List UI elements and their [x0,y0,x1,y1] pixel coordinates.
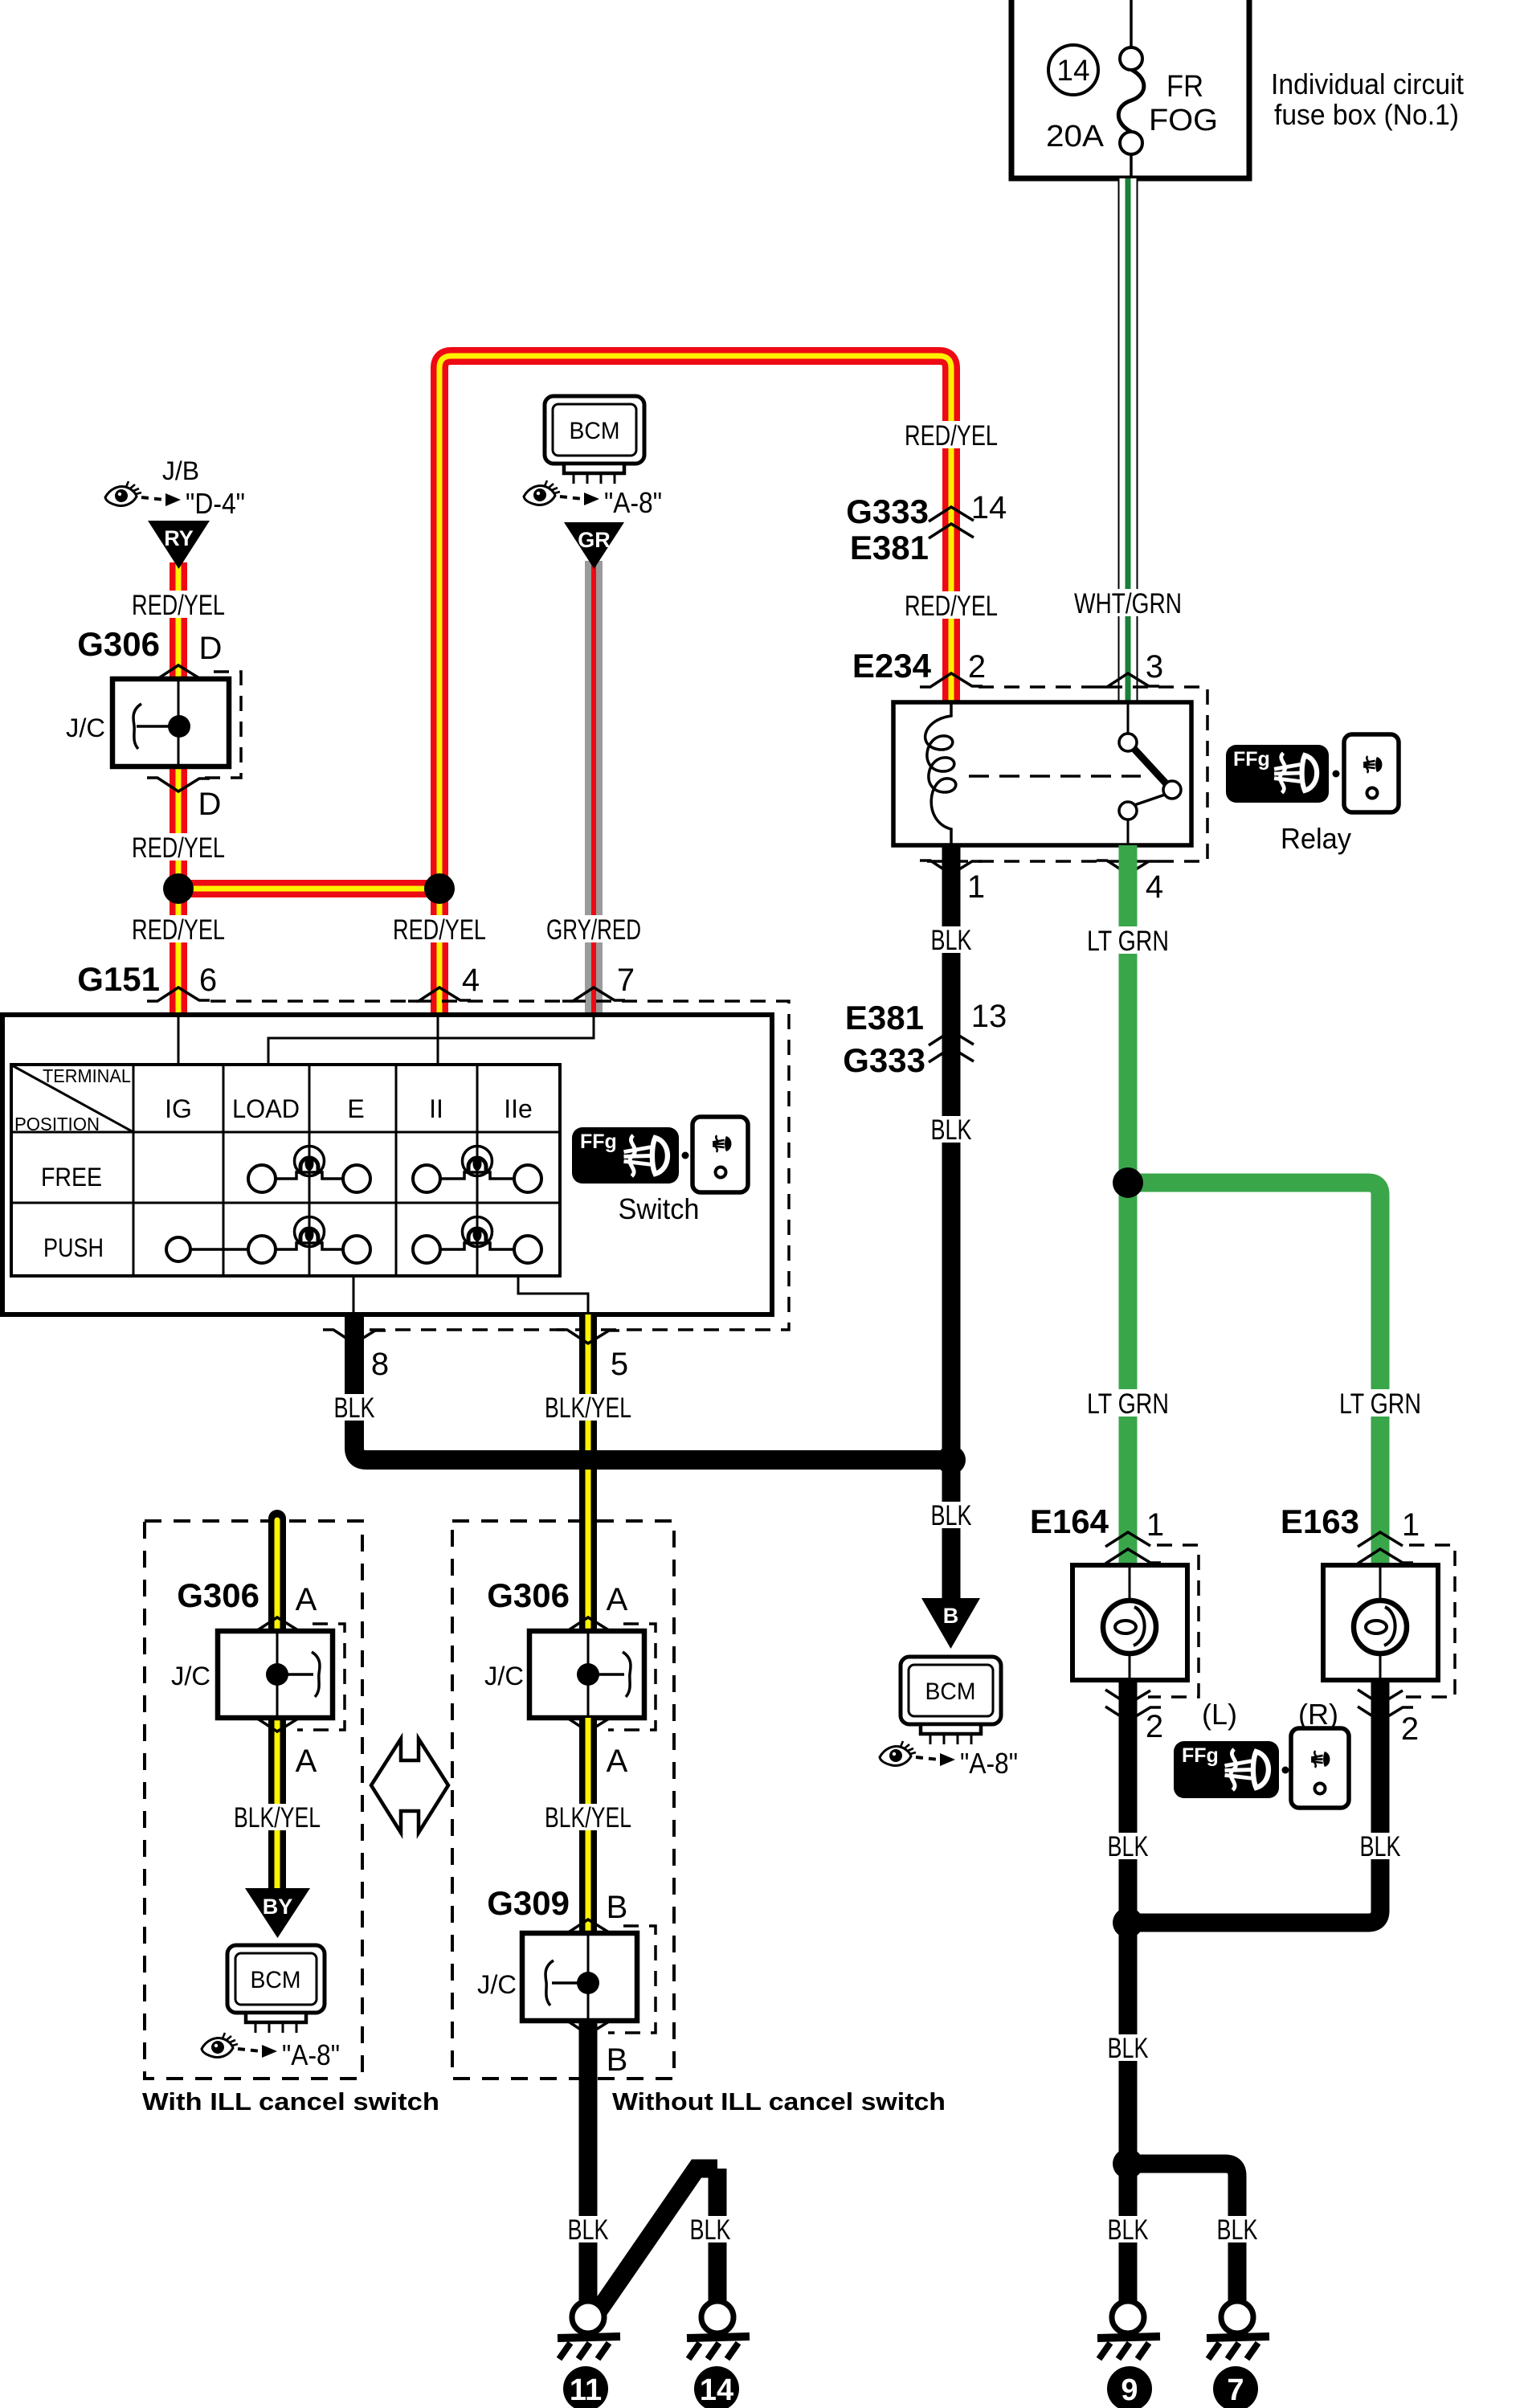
svg-text:B: B [943,1604,959,1628]
wire (internal) terminal 7 to LOAD column [268,1017,594,1065]
svg-text:14: 14 [1056,54,1089,87]
ground id 14 [694,2366,739,2408]
BCM module (top) [545,396,644,484]
svg-text:(L): (L) [1202,1698,1237,1731]
dashed arrow to "A-8" (bottom) [238,2045,277,2058]
svg-text:J/C: J/C [66,713,105,742]
svg-text:G333: G333 [843,1041,925,1079]
wire BLK/YEL G306 to G309 (right branch) [579,1718,597,1933]
svg-text:RED/YEL: RED/YEL [132,832,225,864]
indicator dot (relay) [1333,771,1340,778]
wire BLK branch to ground 7 [1128,2164,1237,2303]
svg-text:8: 8 [371,1347,389,1382]
svg-text:RED/YEL: RED/YEL [905,420,998,452]
svg-text:E381: E381 [850,529,929,566]
junction connector G306 J/C box (left branch) [218,1631,333,1718]
svg-text:B: B [607,1890,628,1925]
label RED/YEL (above G151 terminal 4) [390,914,489,946]
lamp button icon [1291,1728,1349,1808]
svg-text:9: 9 [1121,2373,1138,2407]
wire WHT/GRN from fuse box to relay terminal 3 [1118,178,1138,702]
junction node (BLK lamps) [1113,1907,1143,1938]
svg-text:With ILL cancel switch: With ILL cancel switch [142,2087,439,2116]
eye symbol (view to A-8, top BCM) [524,480,560,505]
switch contacts PUSH row II-IIe [413,1217,541,1264]
connector B triangle (to BCM A-8) [921,1598,980,1649]
svg-text:FFg: FFg [1233,748,1270,771]
wire BLK G309 to ground 11 [579,2021,598,2303]
wire (internal) terminal 4 to II column [437,1017,439,1065]
switch contacts PUSH row IG-LOAD-E [166,1217,370,1264]
chevron terminal B (into G309 J/C) [557,1919,619,1933]
junction connector G306 J/C box (right branch) [529,1631,644,1718]
svg-text:2: 2 [1401,1711,1419,1747]
svg-text:11: 11 [570,2373,602,2407]
svg-text:2: 2 [968,649,986,685]
wire LT GRN branch to E163 [1128,1183,1380,1565]
svg-text:(R): (R) [1298,1698,1338,1731]
svg-text:BLK: BLK [1108,1831,1149,1862]
in-line chevrons above E163 [1358,1532,1413,1564]
svg-text:7: 7 [617,963,635,998]
label RED/YEL (below G333/E381) [901,591,1001,622]
chevron switch terminal 8 [323,1330,386,1343]
wire BLK below E163 joining left wire [1128,1680,1380,1923]
svg-text:RY: RY [164,526,194,550]
wire RED/YEL branch from RY triangle through G306 J/C to G151 terminal 6 [170,562,187,1018]
chevron E234 terminal 1 [920,861,983,874]
fuse F14 symbol FR FOG 20A [1118,0,1144,178]
svg-text:BLK: BLK [1108,2214,1149,2246]
svg-text:RED/YEL: RED/YEL [132,914,225,946]
svg-text:E234: E234 [852,647,932,685]
junction connector G309 dashed outline [608,1926,656,2033]
wire BLK below E164 to ground 9 [1119,1680,1138,2303]
label BLK (above BCM B arrow) [929,1500,974,1531]
svg-text:14: 14 [700,2373,733,2407]
svg-text:Without ILL cancel switch: Without ILL cancel switch [612,2087,946,2116]
svg-text:IG: IG [165,1094,192,1123]
svg-text:A: A [296,1582,317,1617]
wire (internal) terminal 6 to IG column [178,1017,180,1065]
svg-text:BLK: BLK [1217,2214,1258,2246]
svg-text:E164: E164 [1030,1502,1109,1540]
fuse number 14 (circled) [1048,45,1098,95]
wire BLK/YEL stub (With ILL branch) [268,1519,286,1631]
svg-text:1: 1 [1402,1507,1420,1543]
label BLK (below E164) [1105,1831,1150,1862]
label BLK/YEL (left branch) [231,1802,323,1834]
switch connector G151 dashed outline [210,1001,789,1330]
label LT GRN (above E163) [1337,1388,1425,1420]
junction node (RED/YEL left) [163,873,194,904]
ground (body ground, switch circuit right) [687,2301,750,2359]
svg-text:LOAD: LOAD [232,1094,300,1123]
chevron terminal A (below left G306 J/C) [246,1718,308,1731]
svg-text:"A-8": "A-8" [282,2038,340,2071]
junction connector G306 dashed outline (right branch) [608,1624,656,1730]
fuse box: Individual circuit fuse box (No.1) [1011,0,1249,178]
label RED/YEL (above G151 terminal 6) [129,914,228,946]
chevron E234 terminal 2 [920,673,983,687]
svg-text:FREE: FREE [41,1163,102,1192]
alternative double arrow symbol [371,1739,448,1833]
label LT GRN (above E164) [1085,1388,1173,1420]
chevron E234 terminal 4 [1097,861,1159,874]
wire GRY/RED from GR triangle to G151 terminal 7 [585,561,603,1018]
svg-text:POSITION: POSITION [14,1114,100,1134]
relay button icon [1344,734,1399,812]
svg-text:BLK: BLK [1108,2033,1149,2064]
label LT GRN (above E234 terminal 4... below relay) [1085,926,1173,957]
label BLK (above ground 7) [1215,2214,1260,2246]
label BLK (terminal 8) [332,1392,377,1424]
svg-text:G309: G309 [487,1884,570,1922]
wire BLK from switch terminal 8 to junction [354,1314,951,1460]
junction node (LT GRN) [1113,1167,1143,1198]
svg-text:BLK: BLK [931,1114,972,1146]
alternative branch dashed box (With ILL cancel switch) [145,1521,362,2079]
label RED/YEL (below G306) [129,832,228,864]
wire (internal) E column to terminal 8 [353,1276,355,1314]
svg-text:GR: GR [578,528,611,552]
lamp connector E164 dashed outline [1148,1545,1199,1697]
svg-text:BLK: BLK [931,1500,972,1531]
label BLK/YEL (terminal 5) [542,1392,634,1424]
svg-text:BLK: BLK [334,1392,375,1424]
label RED/YEL (above G306) [129,590,228,621]
relay actuation dashed link [969,775,1141,778]
ground (body ground, lamp circuit right) [1207,2301,1269,2359]
svg-text:3: 3 [1146,649,1163,685]
wire BLK/YEL from switch terminal 5 to G306 J/C [579,1314,597,1631]
svg-text:RED/YEL: RED/YEL [393,914,486,946]
svg-text:FOG: FOG [1149,104,1218,137]
svg-text:Relay: Relay [1281,822,1351,855]
svg-text:J/C: J/C [477,1970,517,1999]
connector BY triangle (to BCM A-8) [245,1888,310,1938]
ground id 7 [1213,2366,1258,2408]
svg-text:WHT/GRN: WHT/GRN [1074,588,1182,619]
svg-text:2: 2 [1146,1709,1163,1744]
ground (body ground, switch circuit left) [558,2301,620,2359]
chevron G151 terminal 6 [147,987,210,1001]
svg-text:BLK: BLK [568,2214,609,2246]
svg-text:LT GRN: LT GRN [1087,1388,1169,1420]
in-line connector E381/G333 terminal 13 [843,999,1007,1079]
fog relay icon (FFg) [1226,745,1329,803]
switch button icon [693,1117,748,1192]
svg-text:RED/YEL: RED/YEL [132,590,225,621]
svg-text:E163: E163 [1281,1502,1359,1540]
switch contacts FREE row LOAD-E [248,1147,370,1193]
chevron terminal D (into G306 J/C) [147,665,210,679]
wire BLK/YEL G306 to BY arrow (With ILL branch) [268,1718,286,1896]
svg-text:II: II [429,1094,443,1123]
connector GR triangle (BCM A-8) [564,522,624,569]
chevron terminal A (into left G306 J/C) [246,1617,308,1631]
label BLK (below relay terminal 1) [929,925,974,956]
in-line chevrons above E164 [1105,1532,1161,1564]
svg-text:BLK/YEL: BLK/YEL [545,1392,631,1424]
junction connector G309 J/C box [522,1933,637,2021]
svg-text:BLK/YEL: BLK/YEL [545,1802,631,1834]
svg-text:7: 7 [1227,2373,1244,2407]
connector RY triangle (J/B D-4) [148,521,210,569]
svg-text:G333: G333 [846,493,929,530]
svg-text:1: 1 [1146,1507,1164,1543]
svg-text:LT GRN: LT GRN [1087,926,1169,957]
junction connector G306 dashed outline (left branch) [297,1624,345,1730]
BCM module (middle) [901,1657,1001,1744]
label BLK (above ground 14) [688,2214,733,2246]
svg-text:GRY/RED: GRY/RED [546,914,641,946]
svg-text:BCM: BCM [570,418,620,444]
svg-text:FR: FR [1166,70,1203,104]
indicator dot (lamp icon) [1282,1767,1289,1774]
svg-text:FFg: FFg [580,1130,617,1153]
svg-text:"A-8": "A-8" [604,486,662,519]
dashed arrow to "A-8" (middle) [916,1753,955,1766]
label BLK/YEL (right branch) [542,1802,634,1834]
fog lamp E163 (right) box [1323,1565,1438,1680]
switch contact table [11,1065,560,1276]
svg-text:E381: E381 [845,999,924,1036]
alternative branch dashed box (Without ILL cancel switch) [452,1521,674,2079]
svg-text:B: B [607,2042,628,2078]
ground (body ground, lamp circuit left) [1097,2301,1160,2359]
svg-text:BY: BY [263,1895,293,1919]
svg-text:"D-4": "D-4" [186,487,245,520]
svg-text:G306: G306 [487,1576,570,1614]
label WHT/GRN [1072,588,1184,619]
junction node (BLK grounds) [1113,2148,1143,2179]
dashed arrow to "A-8" [560,493,599,505]
label RED/YEL (above E234 terminal 2) [901,420,1001,452]
dashed arrow to "D-4" [141,493,181,506]
lamp connector E163 dashed outline [1401,1545,1455,1697]
svg-text:A: A [296,1744,317,1779]
svg-text:J/C: J/C [484,1662,524,1691]
fog light switch box [2,1015,772,1314]
chevron G151 terminal 4 [408,987,471,1001]
wire (internal) IIe column to terminal 5 [518,1276,588,1314]
eye symbol (view to A-8, middle BCM) [880,1741,916,1766]
svg-text:BLK/YEL: BLK/YEL [234,1802,321,1834]
svg-text:G306: G306 [177,1576,259,1614]
svg-text:BLK: BLK [931,925,972,956]
junction node (BLK) [937,1445,966,1474]
svg-text:A: A [607,1744,628,1779]
svg-text:20A: 20A [1046,120,1105,153]
eye symbol (view to D-4) [105,481,141,506]
label BLK (mid ground run) [1105,2033,1150,2064]
chevron terminal A (into right G306 J/C) [557,1617,619,1631]
in-line connector G333/E381 terminal 14 [846,490,1007,566]
svg-text:LT GRN: LT GRN [1339,1388,1421,1420]
relay coil [925,702,956,845]
label BLK (above ground 11) [566,2214,611,2246]
chevron G151 terminal 7 [562,987,625,1001]
junction node (RED/YEL mid) [424,873,455,904]
wire BLK relay terminal 1 down to BCM B arrow [942,845,961,1603]
svg-text:PUSH: PUSH [43,1233,104,1262]
chevron terminal B (below G309 J/C) [557,2021,619,2034]
svg-text:BCM: BCM [925,1678,976,1705]
fog lamp E164 (left) box [1072,1565,1187,1680]
BCM module (bottom left) [227,1945,325,2033]
svg-text:4: 4 [462,963,480,998]
svg-text:Individual circuit: Individual circuit [1271,67,1464,100]
svg-text:fuse box (No.1): fuse box (No.1) [1274,98,1459,131]
wire BLK/YEL overlay at dashed box crossing [579,1507,597,1536]
svg-text:BLK: BLK [690,2214,731,2246]
svg-text:BLK: BLK [1360,1831,1401,1862]
svg-text:D: D [199,631,223,666]
relay connector E234 dashed outline [925,687,1207,861]
svg-text:J/C: J/C [171,1662,210,1691]
in-line chevrons below E164 [1105,1690,1161,1721]
svg-text:E: E [347,1094,364,1123]
wire RED/YEL horizontal link between junctions [178,880,439,897]
svg-text:RED/YEL: RED/YEL [905,591,998,622]
junction connector G306 J/C box [112,679,229,767]
eye symbol (view to A-8, bottom BCM) [202,2033,238,2058]
svg-text:TERMINAL: TERMINAL [43,1065,131,1086]
fog lamp icon (FFg) [1174,1741,1279,1798]
svg-text:J/B: J/B [162,456,199,485]
ground id 11 [563,2366,608,2408]
wire BLK diagonal to ground 14 [599,2169,717,2311]
switch contacts FREE row II-IIe [413,1147,541,1193]
chevron E234 terminal 3 [1097,673,1159,687]
chevron terminal A (below right G306 J/C) [557,1718,619,1731]
svg-text:5: 5 [611,1347,628,1382]
fog switch icon (FFg) [572,1127,679,1184]
chevron switch terminal 5 [557,1330,619,1343]
svg-text:IIe: IIe [504,1094,533,1123]
svg-text:Switch: Switch [619,1192,700,1225]
wire RED/YEL main loop (J/B D-4 branch to relay terminal 2) [439,356,951,1018]
label BLK (below E381/G333 13) [929,1114,974,1146]
svg-text:G151: G151 [77,960,160,998]
svg-text:"A-8": "A-8" [960,1747,1018,1780]
junction connector G306 dashed outline [198,672,241,778]
wire LT GRN relay terminal 4 to E164 [1119,845,1138,1565]
relay E234 box [893,702,1191,845]
svg-text:14: 14 [971,490,1007,525]
svg-text:1: 1 [967,869,985,905]
svg-text:A: A [607,1582,628,1617]
in-line chevrons below E163 [1358,1690,1413,1721]
label BLK (above ground 9) [1105,2214,1150,2246]
chevron terminal D (below G306 J/C) [147,778,210,791]
svg-text:D: D [198,787,222,822]
svg-text:4: 4 [1146,869,1163,905]
relay contact arm [1119,702,1181,845]
label GRY/RED (above G151 terminal 7) [544,914,643,946]
svg-text:13: 13 [971,999,1007,1034]
svg-text:BCM: BCM [251,1967,301,1993]
ground id 9 [1107,2366,1152,2408]
svg-text:G306: G306 [77,625,160,663]
indicator dot (switch) [682,1152,689,1159]
svg-text:6: 6 [199,963,217,998]
svg-text:FFg: FFg [1182,1744,1219,1767]
label BLK (below E163) [1358,1831,1403,1862]
